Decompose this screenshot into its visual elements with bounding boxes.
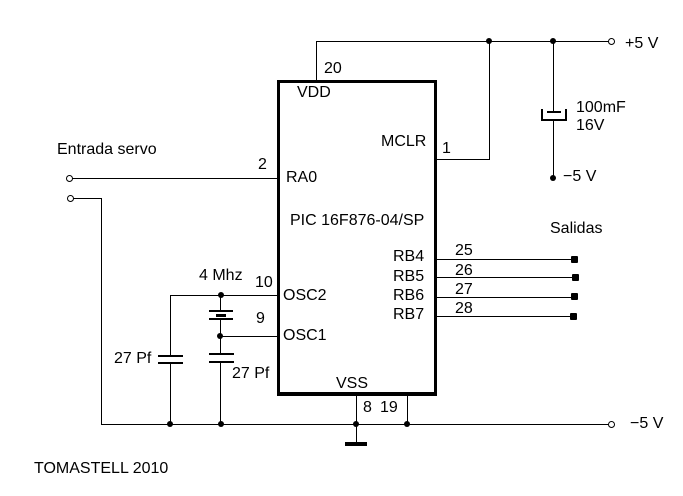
label Salidas (550, 221, 602, 237)
pin number 9 (256, 311, 265, 327)
wire capacitor C2 bottom lead (170, 364, 171, 424)
junction node MCLR rail (486, 38, 492, 44)
wire input 2 vertical to ground rail (101, 198, 102, 424)
value label 16V (576, 118, 604, 134)
node -5V at capacitor (550, 175, 556, 181)
terminal input 2 open circle (67, 195, 74, 202)
capacitor C2 27Pf (two plates) (158, 355, 183, 357)
wire crystal bottom stub (220, 320, 221, 336)
wire ground rail bottom (101, 424, 609, 425)
IC U1 PIC16F876 body (277, 80, 437, 396)
crystal X1 4MHz (plate, bar, plate) (209, 310, 233, 312)
wire ground stub (356, 424, 357, 442)
junction node VSS pin 19 (404, 421, 410, 427)
capacitor C1 100mF electrolytic (plate and cup) (541, 109, 567, 121)
wire VSS pin 19 vertical (407, 396, 408, 424)
wire capacitor C3 bottom lead (220, 363, 221, 424)
label OSC2 (pin name) (283, 288, 327, 304)
wire MCLR vertical (489, 41, 490, 159)
label 4 Mhz (199, 268, 243, 284)
wire VSS pin 8 vertical (356, 396, 357, 424)
wire RB6 output (437, 297, 572, 298)
junction node crystal bottom (217, 333, 223, 339)
wire OSC1 horizontal (220, 336, 277, 337)
pin number 27 (455, 282, 473, 298)
wire +5V top rail (316, 41, 609, 42)
junction node crystal top (218, 292, 224, 298)
pin number 25 (455, 243, 473, 259)
terminal RB7 square (570, 313, 577, 320)
pin number 8 (363, 400, 372, 416)
label MCLR (pin name) (381, 134, 426, 150)
label RB5 (pin name) (393, 269, 424, 285)
wire RB7 output (437, 316, 572, 317)
ground symbol bar (345, 442, 367, 446)
label -5 V bottom (630, 416, 663, 432)
junction node capacitor rail (550, 38, 556, 44)
title TOMASTELL 2010 (34, 461, 168, 477)
wire capacitor C1 bottom lead (553, 121, 554, 176)
wire left branch vertical upper (170, 295, 171, 355)
label Entrada servo (57, 142, 157, 158)
wire input 2 horizontal (73, 198, 101, 199)
capacitor C3 27Pf (two plates) (209, 353, 234, 355)
terminal +5V open circle (608, 38, 615, 45)
wire RA0 input (72, 178, 277, 179)
label RB6 (pin name) (393, 288, 424, 304)
label -5 V at capacitor (563, 169, 596, 185)
pin number 26 (455, 263, 473, 279)
label VSS (pin name) (336, 376, 368, 392)
junction node VSS pin 8 (353, 421, 359, 427)
wire MCLR pin 1 horizontal (437, 159, 490, 160)
wire OSC2 horizontal (170, 295, 277, 296)
wire RB4 output (437, 259, 572, 260)
terminal input 1 open circle (66, 175, 73, 182)
junction node C3 rail (218, 421, 224, 427)
value label 27 Pf right (232, 366, 269, 382)
junction node C2 rail (167, 421, 173, 427)
terminal -5V open circle (608, 421, 615, 428)
pin number 19 (380, 400, 398, 416)
pin number 28 (455, 301, 473, 317)
label +5 V (625, 36, 658, 52)
pin number 20 (324, 61, 342, 77)
label RB7 (pin name) (393, 307, 424, 323)
terminal RB6 square (571, 293, 578, 300)
value label 100mF (576, 100, 626, 116)
label OSC1 (pin name) (283, 328, 327, 344)
wire crystal branch to capacitor C3 (220, 336, 221, 353)
label RA0 (pin name) (286, 170, 317, 186)
pin number 10 (255, 275, 273, 291)
terminal RB5 square (572, 274, 579, 281)
wire VDD pin 20 vertical (316, 41, 317, 80)
value label 27 Pf left (114, 351, 151, 367)
label VDD (pin name) (297, 85, 331, 101)
part value PIC 16F876-04/SP (290, 213, 424, 229)
pin number 2 (258, 157, 267, 173)
wire capacitor C1 top lead (553, 41, 554, 111)
wire RB5 output (437, 277, 572, 278)
wire crystal top stub (220, 295, 221, 310)
terminal RB4 square (571, 256, 578, 263)
pin number 1 (442, 141, 451, 157)
label RB4 (pin name) (393, 249, 424, 265)
